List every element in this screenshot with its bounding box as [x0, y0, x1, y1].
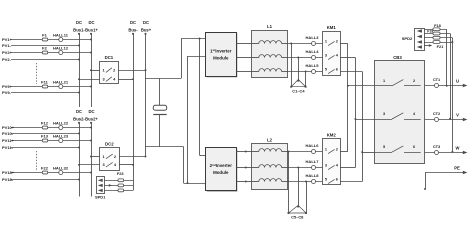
wire main Bus- vertical [133, 34, 135, 191]
inductor L1 winding 3 [259, 69, 282, 72]
svg-text:Module: Module [213, 170, 229, 175]
circuit breaker CB3 box [375, 61, 425, 164]
wire SPD2 fuse line 4 [424, 42, 452, 44]
wire Bus2- to DC2 pole2 [79, 164, 100, 166]
fuse F25 [118, 189, 124, 192]
svg-text:PV11+: PV11+ [2, 138, 15, 143]
svg-text:F19: F19 [427, 30, 433, 34]
node SPD2 drop 2 [449, 118, 451, 120]
node PE stub end [424, 188, 426, 190]
hall sensor HALL23 [59, 139, 63, 143]
surge protector SPD1 box [97, 177, 105, 194]
svg-text:3: 3 [325, 164, 327, 168]
wire KM2 phase 3 out [340, 181, 362, 183]
svg-text:KM1: KM1 [327, 25, 337, 30]
wire KM1 phase 1 out [340, 43, 348, 45]
node SPD2 drop 3 [451, 151, 453, 153]
svg-text:F22: F22 [41, 166, 49, 171]
SPD1 arrester element 1 [98, 179, 103, 182]
wire PV11- input line [11, 147, 79, 149]
inductor L2 box [252, 144, 288, 190]
svg-text:DC: DC [76, 20, 82, 25]
svg-text:2: 2 [336, 40, 338, 44]
hall sensor HALL4 [312, 56, 316, 60]
wire P drop to inverter2 [199, 39, 201, 156]
terminal DC Bus+ [145, 33, 147, 35]
svg-text:2: 2 [336, 148, 338, 152]
fuse F23 [118, 179, 124, 182]
wire inverter2 output phase 2 [236, 167, 251, 169]
wire Bus1- rail [79, 34, 81, 107]
wire inverter2 output phase 3 [236, 181, 251, 183]
wire P into inverter2 [200, 155, 206, 157]
wire L1 phase 1 to KM1 [288, 43, 323, 45]
svg-text:F18: F18 [434, 23, 442, 28]
terminal DC Bus- [132, 33, 134, 35]
fuse F12 [42, 126, 47, 129]
node merge phase 2 [354, 118, 356, 120]
contactor KM1 [323, 32, 341, 76]
svg-text:DC: DC [76, 109, 82, 114]
svg-text:V: V [456, 112, 459, 117]
svg-text:U: U [456, 78, 459, 83]
SPD1 arrester element 3 [98, 189, 103, 192]
svg-text:C5~C8: C5~C8 [291, 215, 304, 220]
svg-text:HALL23: HALL23 [53, 134, 69, 139]
fuse F18 [433, 28, 440, 31]
wire L2 phase 2 to KM2 [288, 167, 323, 169]
svg-text:HALL7: HALL7 [306, 159, 320, 164]
hall sensor HALL7 [312, 166, 316, 170]
wire Bus1+ rail [91, 34, 93, 107]
wire PV11+ input line [11, 140, 91, 142]
wire inverter1 output phase 3 [236, 71, 251, 73]
svg-text:F13: F13 [41, 134, 49, 139]
capacitor bank C5~C8 [288, 152, 290, 214]
fuse F21 [433, 41, 440, 44]
svg-text:1: 1 [383, 79, 385, 83]
svg-text:2: 2 [413, 79, 415, 83]
fuse F13 [42, 139, 47, 142]
wire P branch [146, 78, 182, 80]
wire CB3 out V [425, 119, 463, 121]
hall sensor HALL5 [312, 70, 316, 74]
wire DC2 pole1 out to Bus+ [119, 156, 146, 158]
wire P to inverter1 [181, 38, 206, 40]
hall sensor HALL12 [59, 51, 63, 55]
output arrow W [463, 151, 468, 155]
wire SPD1 fuse line 2 [105, 185, 134, 187]
svg-text:PV9-: PV9- [2, 90, 12, 95]
svg-text:PV1+: PV1+ [2, 37, 13, 42]
svg-text:DC1: DC1 [105, 55, 114, 60]
node merge phase 1 [347, 85, 349, 87]
svg-text:PV11-: PV11- [2, 145, 14, 150]
hall sensor HALL21 [59, 85, 63, 89]
wire capacitor bottom lead [159, 115, 161, 147]
svg-text:DC: DC [130, 20, 136, 25]
svg-text:1: 1 [325, 148, 327, 152]
fuse F2 [42, 51, 47, 54]
inductor L1 box [252, 31, 288, 78]
wire Bus1+ to DC1 pole1 [91, 70, 100, 72]
svg-text:C1~C4: C1~C4 [292, 89, 305, 94]
wire KM1 phase 3 out [340, 71, 362, 73]
wire N drop [183, 147, 185, 183]
wire KM1 phase 2 out [340, 57, 355, 59]
wire DC2 pole2 out to Bus- [119, 164, 133, 166]
wire Bus1- to DC1 pole2 [79, 79, 100, 81]
wire PV2- input line [11, 59, 79, 61]
node SPD2 drop 1 [446, 85, 448, 87]
surge protector SPD2 box [415, 29, 425, 51]
wire SPD2 drop 1 [446, 29, 448, 85]
wire P riser [181, 39, 183, 79]
output arrow PE [463, 171, 468, 175]
wire SPD2 drop 2 [450, 34, 452, 119]
wire KM2 phase 1 out [340, 151, 348, 153]
node merge phase 3 [361, 151, 363, 153]
wire PV10- input line [11, 133, 79, 135]
node PV10+ on bus [90, 127, 92, 129]
wire N rail [146, 146, 184, 148]
wire Bus2- rail [79, 123, 81, 197]
svg-text:HALL12: HALL12 [53, 46, 69, 51]
svg-text:3: 3 [383, 112, 385, 116]
svg-text:Bus1-: Bus1- [73, 28, 85, 33]
hall sensor HALL8 [312, 180, 316, 184]
node PV18+ on bus [90, 172, 92, 174]
wire N riser inverter1 [187, 56, 189, 183]
output arrow U [463, 84, 468, 88]
inductor L2 winding 1 [259, 149, 282, 152]
terminal DC Bus2+ [90, 122, 92, 124]
DC switch DC1 [100, 62, 119, 84]
inductor L1 winding 1 [259, 41, 282, 44]
node PV2- on bus [78, 59, 80, 61]
wire PE stub down [425, 173, 427, 189]
wire phase 1 to CB3 [348, 85, 375, 87]
svg-text:PV1-: PV1- [2, 43, 12, 48]
wire KM2 phase 2 out [340, 167, 355, 169]
svg-text:L1: L1 [267, 24, 273, 29]
wire CB3 out W [425, 152, 463, 154]
svg-text:F12: F12 [41, 121, 49, 126]
wire L2 phase 3 to KM2 [288, 181, 323, 183]
terminal DC Bus2- [78, 122, 80, 124]
fuse F24 [118, 184, 124, 187]
svg-text:PV2+: PV2+ [2, 50, 13, 55]
fuse F11 [42, 85, 47, 88]
wire N into inverter1 [188, 56, 206, 58]
terminal DC Bus1+ [90, 33, 92, 35]
wire merge vertical phase 3 [362, 72, 364, 182]
svg-text:DC: DC [143, 20, 149, 25]
wire PV2+ input line [11, 52, 91, 54]
svg-text:3: 3 [325, 54, 327, 58]
output arrow V [463, 118, 468, 122]
SPD1 arrester element 2 [98, 184, 103, 187]
wire SPD2 fuse line 1 [424, 29, 447, 31]
svg-text:1: 1 [325, 40, 327, 44]
svg-text:PV2-: PV2- [2, 57, 12, 62]
wire SPD1 fuse line 1 [105, 180, 134, 182]
node PV11- on bus [78, 147, 80, 149]
svg-text:CT3: CT3 [433, 144, 441, 149]
DC switch DC2 [100, 148, 120, 171]
wire PE line [425, 172, 463, 174]
node N join [187, 182, 189, 184]
current transformer CT3 [435, 151, 439, 155]
svg-text:SPD2: SPD2 [402, 36, 413, 41]
svg-text:PV10+: PV10+ [2, 125, 15, 130]
wire PV18+ input line [11, 172, 91, 174]
wire main Bus+ vertical [145, 34, 147, 157]
svg-text:PV18-: PV18- [2, 177, 14, 182]
SPD2 arrester element 2 [417, 35, 422, 38]
svg-text:F2: F2 [42, 46, 47, 51]
fuse F20 [433, 36, 440, 39]
wire DC1 pole1 out to Bus+ [118, 70, 145, 72]
svg-text:Bus2-: Bus2- [73, 117, 85, 122]
node PV9- on bus [78, 92, 80, 94]
inductor L2 winding 3 [259, 179, 282, 182]
node PV1- on bus [78, 45, 80, 47]
SPD2 arrester element 4 [417, 45, 422, 48]
wire Bus2+ to DC2 pole1 [91, 156, 100, 158]
svg-text:6: 6 [336, 178, 338, 182]
inverter module U1 (1st) [207, 33, 238, 77]
svg-text:HALL8: HALL8 [306, 173, 320, 178]
hall sensor HALL22 [59, 126, 63, 130]
svg-text:Bus1+: Bus1+ [85, 28, 98, 33]
node PV10- on bus [78, 133, 80, 135]
wire PV1- input line [11, 45, 79, 47]
svg-text:5: 5 [325, 178, 327, 182]
hall sensor HALL11 [59, 38, 63, 42]
wire L1 phase 2 to KM1 [288, 57, 323, 59]
inverter module U2 (2nd) [207, 148, 238, 191]
svg-text:DC: DC [88, 20, 94, 25]
fuse F19 [433, 32, 440, 35]
wire SPD2 drop 3 [452, 38, 454, 152]
svg-text:L2: L2 [267, 138, 273, 143]
wire L1 phase 3 to KM1 [288, 71, 323, 73]
svg-text:HALL6: HALL6 [306, 143, 320, 148]
wire inverter1 output phase 2 [236, 57, 251, 59]
wire capacitor top lead [159, 78, 161, 105]
svg-text:6: 6 [413, 145, 415, 149]
svg-text:Bus+: Bus+ [141, 28, 152, 33]
svg-text:Module: Module [213, 56, 229, 61]
svg-text:5: 5 [325, 68, 327, 72]
svg-text:SPD1: SPD1 [95, 194, 106, 199]
svg-text:Bus-: Bus- [128, 28, 138, 33]
svg-text:HALL11: HALL11 [53, 33, 69, 38]
wire Bus2+ rail [91, 123, 93, 197]
wire SPD2 fuse line 3 [424, 37, 452, 39]
inductor L1 winding 2 [259, 55, 282, 58]
capacitor C-dclink plate1 [153, 105, 166, 110]
svg-text:5: 5 [383, 145, 385, 149]
ellipsis dotted line group1 [36, 63, 38, 84]
CB3 pole 5-6 [374, 152, 392, 154]
contactor KM2 [323, 139, 341, 185]
wire merge vertical phase 1 [347, 44, 349, 152]
svg-text:HALL5: HALL5 [306, 63, 320, 68]
node PV1+ on bus [90, 39, 92, 41]
node P split [199, 38, 201, 40]
wire merge vertical phase 2 [355, 58, 357, 168]
hall sensor HALL3 [312, 42, 316, 46]
svg-text:CT1: CT1 [433, 77, 441, 82]
capacitor C-dclink plate2 [153, 114, 166, 116]
SPD1 indicator arrow [109, 184, 112, 187]
svg-text:KM2: KM2 [327, 132, 337, 137]
svg-text:PV10-: PV10- [2, 131, 14, 136]
fuse F22 [42, 171, 47, 174]
node PV2+ on bus [90, 52, 92, 54]
CB3 pole 3-4 [374, 119, 392, 121]
svg-text:DC: DC [88, 109, 94, 114]
svg-text:HALL3: HALL3 [306, 35, 320, 40]
svg-text:CT2: CT2 [433, 111, 441, 116]
ellipsis dotted line group2 [36, 151, 38, 170]
wire SPD2 fuse line 2 [424, 33, 450, 35]
wire DC1 pole2 out to Bus- [118, 79, 133, 81]
node PV18- on bus [78, 179, 80, 181]
wire SPD1 fuse line 3 [105, 190, 134, 192]
wire inverter1 output phase 1 [236, 43, 251, 45]
node PV9+ on bus [90, 86, 92, 88]
wire CB3 out U [425, 85, 463, 87]
svg-text:6: 6 [336, 68, 338, 72]
node PV11+ on bus [90, 140, 92, 142]
inductor L2 winding 2 [259, 165, 282, 168]
svg-text:HALL22: HALL22 [53, 121, 69, 126]
wire PV18- input line [11, 179, 79, 181]
current transformer CT2 [435, 118, 439, 122]
svg-text:F23: F23 [117, 171, 125, 176]
svg-text:CB3: CB3 [393, 55, 402, 60]
svg-text:PE: PE [454, 166, 460, 171]
current transformer CT1 [435, 84, 439, 88]
svg-text:DC2: DC2 [105, 141, 114, 146]
svg-text:W: W [456, 145, 460, 150]
wire PV1+ input line [11, 39, 91, 41]
CB3 pole 1-2 [374, 85, 392, 87]
svg-text:HALL4: HALL4 [306, 49, 320, 54]
svg-text:PV9+: PV9+ [2, 84, 13, 89]
svg-text:Bus2+: Bus2+ [85, 117, 98, 122]
wire phase 3 to CB3 [362, 152, 374, 154]
hall sensor HALL6 [312, 150, 316, 154]
capacitor bank C1~C4 [291, 44, 293, 87]
hall sensor HALL32 [59, 171, 63, 175]
wire PV10+ input line [11, 127, 91, 129]
svg-text:HALL32: HALL32 [53, 166, 69, 171]
SPD2 arrester element 1 [417, 29, 422, 32]
svg-text:HALL21: HALL21 [53, 80, 69, 85]
svg-text:F1: F1 [42, 33, 47, 38]
svg-text:F11: F11 [41, 80, 48, 85]
svg-text:F21: F21 [437, 44, 445, 49]
wire inverter2 output phase 1 [236, 151, 251, 153]
wire N to inverter2 [184, 183, 206, 185]
node F21 join [451, 41, 453, 43]
wire PV9- input line [11, 92, 79, 94]
SPD2 earth arrow [424, 45, 429, 47]
fuse F1 [42, 38, 47, 41]
SPD2 arrester element 3 [417, 40, 422, 43]
svg-text:PV18+: PV18+ [2, 170, 15, 175]
wire L2 phase 1 to KM2 [288, 151, 323, 153]
wire phase 2 to CB3 [355, 119, 374, 121]
terminal DC Bus1- [78, 33, 80, 35]
wire PV9+ input line [11, 86, 91, 88]
